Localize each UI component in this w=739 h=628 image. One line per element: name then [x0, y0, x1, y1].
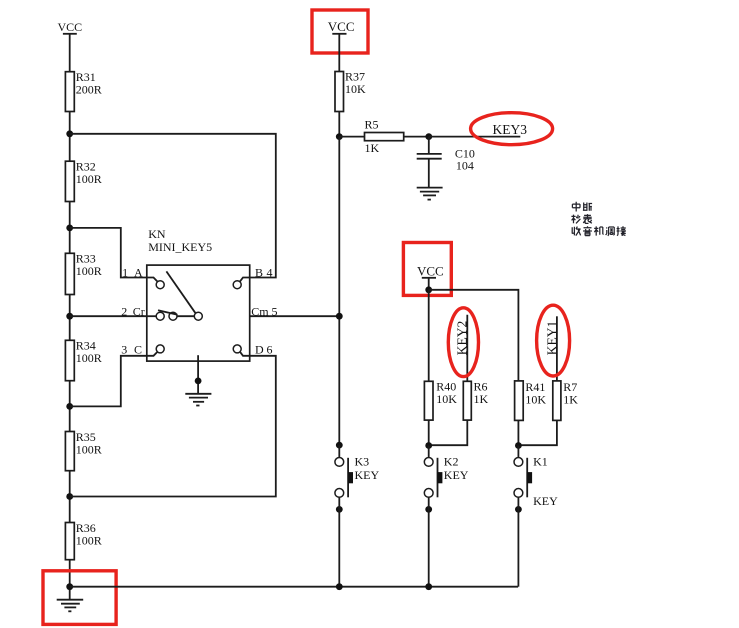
resistor R7: [553, 380, 578, 420]
svg-text:K1: K1: [533, 455, 548, 469]
node junction R32/R33: [66, 225, 73, 232]
switch open arm: [158, 310, 178, 315]
svg-text:6: 6: [267, 343, 273, 357]
wire bottom bus: [70, 586, 518, 588]
power VCC right: [417, 264, 444, 279]
op-amp U1 KN MINI_KEY5 body: [147, 227, 250, 361]
svg-text:A: A: [134, 266, 143, 280]
svg-text:B: B: [255, 266, 263, 280]
wire VCC right down: [428, 278, 430, 290]
svg-text:1K: 1K: [365, 141, 380, 155]
svg-text:R5: R5: [365, 118, 379, 132]
resistor R33: [65, 252, 101, 295]
svg-text:Cr: Cr: [133, 304, 145, 318]
resistor R37: [335, 70, 366, 112]
red annotation ellipse KEY2: [448, 308, 478, 377]
ground symbol bottom left: [57, 600, 83, 612]
red annotation ellipse KEY1: [537, 305, 570, 376]
wire R40/R6 to K2 node: [429, 420, 468, 445]
wire net KEY1 stub: [556, 316, 558, 381]
node switch ground junction: [195, 378, 202, 385]
resistor R32: [65, 160, 101, 202]
wire center bus: [338, 137, 340, 446]
svg-text:4: 4: [267, 266, 273, 280]
resistor R40: [424, 380, 457, 421]
resistor R36: [65, 521, 101, 560]
wire switch ground stub: [197, 355, 199, 394]
svg-text:1: 1: [122, 266, 128, 280]
pin D 6 lead: [233, 343, 272, 357]
wire Cm5 to center bus: [250, 315, 340, 317]
pin 1 A lead: [122, 266, 164, 289]
pin Cm 5 lead: [251, 304, 277, 318]
switch common circles: [169, 312, 202, 320]
wire VCC to R41 branch: [429, 290, 519, 381]
wire junction to pin 1 A: [70, 228, 147, 278]
node junction VCC right: [425, 286, 432, 293]
pin 2 Cr lead: [121, 304, 164, 320]
svg-text:100R: 100R: [76, 172, 102, 186]
svg-text:10K: 10K: [525, 393, 546, 407]
svg-text:104: 104: [456, 159, 474, 173]
wire junction to B4 drop: [70, 134, 276, 278]
wire junction to R5: [339, 136, 364, 138]
node junction R31/R32: [66, 130, 73, 137]
svg-text:1K: 1K: [474, 392, 489, 406]
wire R35 to R36: [69, 471, 71, 523]
node junction R5/C10: [425, 133, 432, 140]
svg-text:100R: 100R: [76, 351, 102, 365]
svg-text:1K: 1K: [563, 393, 578, 407]
svg-text:MINI_KEY5: MINI_KEY5: [148, 240, 212, 254]
wire R34 to R35: [69, 381, 71, 432]
svg-text:C: C: [134, 343, 142, 357]
resistor R35: [65, 430, 101, 471]
ground symbol under switch: [185, 394, 211, 406]
wire R33 to R34: [69, 295, 71, 341]
capacitor C10: [417, 137, 475, 188]
node junction K1 top: [515, 442, 522, 449]
wire VCC to R40: [428, 290, 430, 382]
resistor R34: [65, 339, 101, 381]
transistor K1 pushbutton: [514, 446, 558, 587]
svg-text:VCC: VCC: [328, 19, 355, 34]
wire net KEY3: [429, 136, 521, 138]
wire R5 to C10 junction: [404, 136, 429, 138]
svg-text:KEY: KEY: [355, 468, 380, 482]
wire R32 to R33: [69, 202, 71, 254]
svg-text:3: 3: [121, 343, 127, 357]
node junction bottom bus: [66, 583, 73, 590]
red annotation box ground: [43, 571, 116, 625]
svg-text:D: D: [255, 343, 264, 357]
svg-text:200R: 200R: [76, 83, 102, 97]
power VCC left: [58, 20, 83, 34]
node junction R37/R5: [336, 133, 343, 140]
svg-text:KEY: KEY: [444, 468, 469, 482]
wire R31 to R32: [69, 112, 71, 162]
node junction R35/R36: [66, 493, 73, 500]
resistor R31: [65, 70, 101, 112]
svg-text:10K: 10K: [345, 82, 366, 96]
resistor R5: [365, 118, 404, 156]
svg-text:VCC: VCC: [417, 264, 444, 279]
node junction K2 bottom bus: [425, 583, 432, 590]
svg-text:KEY3: KEY3: [493, 122, 528, 137]
pin 3 C lead: [121, 343, 164, 357]
transistor K3 pushbutton: [335, 445, 380, 587]
pin B 4 lead: [233, 266, 272, 289]
wire VCC to R37: [338, 34, 340, 72]
wire junction to pin 3 C: [70, 356, 147, 407]
red annotation ellipse KEY3: [471, 113, 553, 145]
node junction K2 top: [425, 442, 432, 449]
wire R37 to junction: [338, 112, 340, 137]
wire VCC to R31: [69, 34, 71, 72]
svg-text:KN: KN: [148, 227, 166, 241]
wire junction to D6 drop: [70, 356, 276, 497]
resistor R41: [515, 380, 547, 420]
text note chinese line1 中断: [572, 202, 592, 212]
svg-text:10K: 10K: [436, 392, 457, 406]
node junction R33/R34: [66, 313, 73, 320]
svg-text:2: 2: [121, 304, 127, 318]
svg-text:KEY1: KEY1: [544, 321, 559, 356]
svg-text:K3: K3: [355, 455, 370, 469]
text note chinese line2 秒表: [571, 214, 591, 223]
wire net KEY2 stub: [466, 315, 468, 382]
switch main arm: [166, 271, 195, 313]
svg-text:KEY2: KEY2: [455, 321, 470, 356]
node junction bus/K3: [336, 442, 343, 449]
transistor K2 pushbutton: [424, 446, 468, 587]
svg-text:K2: K2: [444, 455, 459, 469]
node junction R34/R35: [66, 403, 73, 410]
ground symbol under C10: [417, 188, 443, 200]
svg-text:VCC: VCC: [58, 20, 83, 34]
node junction K3 bottom bus: [336, 583, 343, 590]
wire R36 to ground: [69, 560, 71, 600]
svg-text:100R: 100R: [76, 442, 102, 456]
red annotation box VCC right: [403, 243, 451, 296]
svg-text:100R: 100R: [76, 533, 102, 547]
red annotation box VCC center: [312, 10, 368, 53]
resistor R6: [463, 380, 488, 421]
wire R41/R7 to K1 node: [518, 420, 557, 445]
svg-text:100R: 100R: [76, 264, 102, 278]
svg-text:KEY: KEY: [533, 494, 558, 508]
text note chinese line3 收音机调接: [572, 226, 626, 236]
power VCC center: [328, 19, 355, 34]
wire junction to pin 2 Cr: [70, 315, 147, 317]
node junction Cm5/bus: [336, 313, 343, 320]
